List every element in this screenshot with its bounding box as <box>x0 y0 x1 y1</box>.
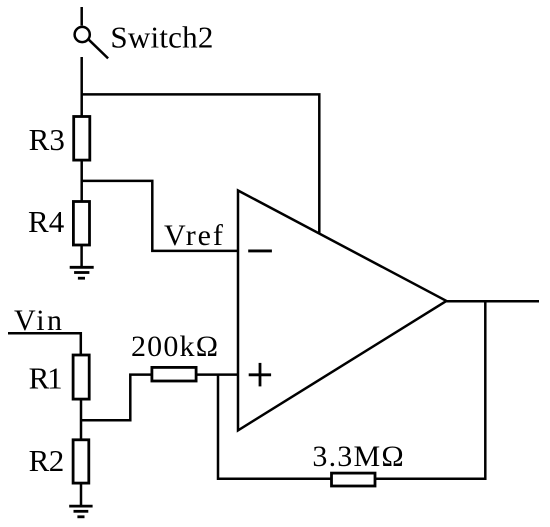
ground under R4 <box>70 267 94 278</box>
svg-text:200kΩ: 200kΩ <box>131 330 218 363</box>
svg-text:R1: R1 <box>29 361 63 396</box>
svg-text:Vin: Vin <box>14 304 62 337</box>
resistor 3.3MΩ body <box>332 473 376 486</box>
svg-text:Vref: Vref <box>164 219 223 252</box>
wire R4 to ground <box>80 246 83 267</box>
op-amp non-inverting input plus sign <box>249 363 271 387</box>
wire 200k resistor to non-inverting input <box>196 373 238 376</box>
switch Switch2 arm <box>89 40 108 59</box>
op-amp U1 triangle <box>238 191 446 431</box>
ground under R2 <box>69 506 92 517</box>
wire switch top stub <box>80 7 83 26</box>
wire R3 to R4 <box>80 160 83 201</box>
wire R1/R2 junction across to riser up to 200k resistor <box>81 375 152 421</box>
wire top rail from switch node to op-amp top edge <box>82 94 320 233</box>
op-amp inverting input minus sign <box>248 249 272 252</box>
svg-text:R2: R2 <box>29 443 65 478</box>
wire node Vin input lead <box>8 333 81 355</box>
wire 3.3M resistor to output node <box>375 301 485 479</box>
wire node Vref: R3/R4 junction to inverting input <box>82 181 238 251</box>
wire R1 to R1/R2 junction to R2 <box>80 400 83 440</box>
resistor 200kΩ body <box>152 367 196 381</box>
wire op-amp output <box>446 300 539 303</box>
resistor R1 body <box>73 355 89 399</box>
resistor R3 body <box>74 117 90 161</box>
svg-text:3.3MΩ: 3.3MΩ <box>312 440 403 473</box>
svg-text:R3: R3 <box>29 122 65 157</box>
switch Switch2 circle contact <box>75 27 90 42</box>
svg-text:R4: R4 <box>28 204 65 239</box>
svg-text:Switch2: Switch2 <box>110 19 213 54</box>
wire R2 to ground <box>80 484 83 506</box>
resistor R2 body <box>73 440 89 483</box>
resistor R4 body <box>73 202 89 246</box>
wire switch to R3 <box>80 57 83 116</box>
wire feedback tap down from non-inverting input node <box>218 375 331 479</box>
